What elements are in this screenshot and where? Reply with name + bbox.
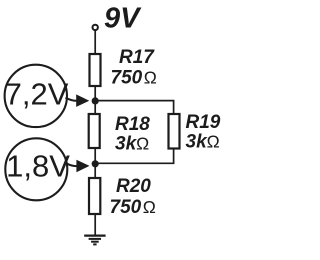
svg-text:3kΩ: 3kΩ <box>115 134 149 155</box>
svg-text:3kΩ: 3kΩ <box>186 132 220 153</box>
node B (1.8V junction) <box>92 160 99 167</box>
probe circle 1,8V <box>5 138 67 200</box>
wire R19 bottom to node B <box>95 149 173 164</box>
svg-text:R17: R17 <box>119 47 155 68</box>
ground <box>84 236 105 245</box>
svg-text:750Ω: 750Ω <box>110 197 156 218</box>
wire node A to R19 branch <box>95 101 173 115</box>
wire R17 to R18 <box>94 86 96 115</box>
svg-text:9V: 9V <box>104 3 142 35</box>
arrow from 7,2V to node A <box>66 94 90 107</box>
terminal 9V supply <box>93 25 98 30</box>
resistor R19 <box>169 114 180 149</box>
wire R20 to ground <box>94 214 96 235</box>
svg-text:750Ω: 750Ω <box>111 68 157 89</box>
arrow from 1,8V to node B <box>67 160 90 173</box>
resistor R17 <box>90 54 101 86</box>
svg-text:R18: R18 <box>115 114 150 135</box>
wire R18 to R20 <box>94 148 96 179</box>
svg-text:1,8V: 1,8V <box>6 148 70 183</box>
resistor R18 <box>89 114 100 148</box>
wire terminal to R17 <box>94 31 96 55</box>
svg-text:R19: R19 <box>186 112 221 133</box>
svg-text:7,2V: 7,2V <box>5 77 69 112</box>
resistor R20 <box>89 178 100 214</box>
node A (7.2V junction) <box>92 97 99 104</box>
probe circle 7,2V <box>5 65 67 127</box>
svg-text:R20: R20 <box>116 176 151 197</box>
